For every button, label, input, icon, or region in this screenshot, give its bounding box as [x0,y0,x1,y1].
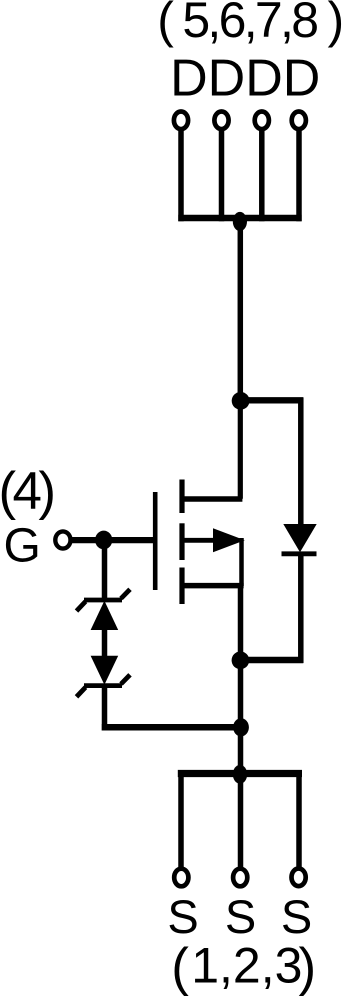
p-channel MOSFET Q1 [155,480,245,605]
channel segment middle [179,523,184,560]
terminal D pin 6 [214,112,228,130]
wire D pin 8 to drain bus [296,128,302,221]
terminal D pin 7 [255,112,269,130]
label pin numbers (1, 2, 3) [171,938,316,997]
junction node A (drain / body diode) [232,392,250,410]
junction body diode / source [232,651,250,669]
body tie vertical [239,538,244,586]
terminal S pin 1 [174,869,188,887]
wire between zeners [102,629,108,657]
wire S pin 3 [296,770,302,867]
wire D pin 5 to drain bus [178,128,184,221]
wire D pin 6 to drain bus [219,128,225,221]
svg-text:S: S [225,890,256,943]
wire source bus [178,770,302,777]
terminal G pin 4 [55,531,70,548]
wire gate [72,537,154,543]
junction zener return [233,718,249,736]
wire body diode cathode drop [298,554,304,663]
svg-text:(: ( [171,938,189,997]
svg-text:DDDD: DDDD [170,49,320,107]
svg-text:1,2,3: 1,2,3 [191,938,302,994]
wire drain bus [178,215,301,221]
svg-text:( 5,6,7,8 ): ( 5,6,7,8 ) [157,0,341,48]
junction drain bus [233,212,247,231]
terminal S pin 2 [233,869,247,887]
wire zener Z2 to return [102,686,108,731]
wire body diode to source node [240,657,303,663]
wire S pin 1 [178,770,184,868]
terminal D pin 8 [292,112,306,130]
channel segment top [179,480,184,514]
body line [182,538,216,543]
terminal S pin 3 [292,869,306,887]
zener diode Z1 (cathode up) [77,589,131,630]
zener diode Z2 (cathode down) [77,656,131,697]
wire node A to body diode branch [240,397,303,403]
wire body diode anode drop [298,398,304,526]
wire zener return to source [102,724,241,731]
wire node A to MOSFET drain [238,400,243,499]
channel segment bottom [179,568,184,605]
drain tab [182,496,242,502]
gate bar [153,492,158,590]
junction gate node [95,531,112,550]
wire gate node to zener Z1 [102,540,108,601]
junction source bus [233,765,247,784]
wire D pin 7 to drain bus [259,128,265,221]
body arrow [213,528,245,552]
source tab [182,583,244,589]
svg-text:G: G [4,520,41,573]
svg-text:): ) [299,938,317,997]
svg-text:(4): (4) [0,462,53,521]
terminal D pin 5 [174,112,188,130]
wire MOSFET source drop [238,586,244,868]
body diode D1 [282,524,317,554]
svg-text:S: S [281,890,312,943]
svg-text:S: S [167,890,198,943]
wire drain bus to node A [238,218,244,400]
